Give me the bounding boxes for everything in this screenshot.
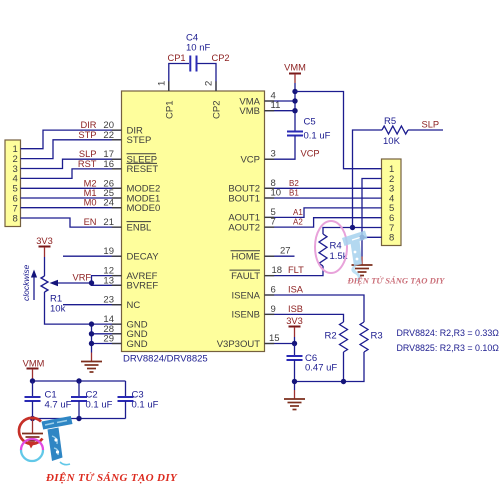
junction C6 bottom / sense gnd [292,379,297,384]
svg-text:19: 19 [103,246,114,257]
svg-text:STP: STP [78,130,96,140]
svg-text:18: 18 [272,265,283,276]
svg-text:DIR: DIR [80,120,96,130]
svg-text:3: 3 [271,149,276,160]
power 3V3 (at R1 top) [36,236,53,276]
svg-text:M0: M0 [84,198,97,208]
node CP1 label [168,53,186,63]
svg-text:VMM: VMM [284,63,306,73]
capacitor C4 10nF between CP1 and CP2 [169,33,216,92]
junction VMA [292,98,297,103]
resistor R5 10K (FLT to SLP) [353,116,444,228]
svg-text:10K: 10K [383,136,401,147]
svg-text:15: 15 [269,333,280,344]
wire J1 pin3 to SLEEP [21,159,122,168]
svg-text:RST: RST [78,159,97,169]
node B1 label [289,189,299,198]
svg-text:11: 11 [271,100,281,111]
svg-text:R3: R3 [371,331,383,342]
pin stubs (dark) over nets: IC left [112,130,122,343]
note DRV8824 sense value [397,328,500,338]
node VRF label [73,273,92,283]
node ISB label [288,304,303,314]
node A2 label [293,218,303,227]
wire J1 pin1 to DIR [21,130,122,149]
wire J2 pin8 to ground rail [362,236,382,238]
svg-text:MODE0: MODE0 [127,203,161,214]
svg-text:6: 6 [271,285,276,296]
wire J1 pin2 to STEP [21,140,122,159]
node A1 label [293,208,303,217]
ground (below C1) [22,419,43,445]
svg-text:CP1: CP1 [168,53,186,63]
svg-text:7: 7 [271,217,276,228]
wire AOUT2 (A2) to J2 pin6 [265,218,382,227]
junction GND pin14 [89,321,94,326]
svg-text:ENBL: ENBL [127,222,152,233]
node STP label [78,130,96,140]
node ISA label [288,285,304,295]
wire VMM rail to VMA/VMB and C5 [265,92,296,132]
svg-text:B1: B1 [289,189,299,198]
node B2 label [289,179,299,188]
wire VMM to J2 pin1 [295,92,382,169]
IC right pin number labels [269,91,291,345]
svg-text:DRV8825: R2,R3 = 0.10Ω: DRV8825: R2,R3 = 0.10Ω [397,343,500,353]
junction VMB [292,108,297,113]
power VMM (top) [284,63,306,92]
svg-text:0.1 uF: 0.1 uF [304,131,331,142]
svg-text:0.47 uF: 0.47 uF [305,363,337,374]
wire AOUT1 (A1) to J2 pin5 [265,208,382,218]
node M1 label [84,188,97,198]
junction GND pin28 [89,331,94,336]
svg-text:A2: A2 [293,218,303,227]
wire bulk cap rail (bottom) [33,418,126,420]
junction GND pin29 [89,341,94,346]
junction FLT/R4/R5/pin7 [350,225,355,230]
svg-text:R4: R4 [330,241,342,252]
svg-text:VMM: VMM [23,359,45,369]
svg-text:HOME: HOME [232,252,261,263]
resistor R2 (sense) [325,322,348,382]
wire VMM bulk cap rail (top) [33,380,126,382]
ground (below C6) [284,390,305,410]
pin 2 label (rotated) for CP2 [204,81,215,86]
svg-text:FLT: FLT [288,265,304,275]
svg-text:SLP: SLP [422,120,440,130]
right connector J2 (8-pin header) [382,159,402,246]
svg-text:ISENB: ISENB [231,310,260,321]
watermark ellipse around R4 [315,221,347,273]
capacitor C3 0.1uF [118,381,159,419]
svg-text:clockwise: clockwise [21,264,31,301]
IC left pin number labels [103,120,114,344]
svg-text:M1: M1 [84,188,97,198]
svg-text:VCP: VCP [301,149,320,159]
junction V3P3OUT [292,341,297,346]
svg-text:9: 9 [271,304,276,315]
svg-text:10k: 10k [50,304,66,315]
svg-text:4.7 uF: 4.7 uF [45,400,72,411]
wire J1 pin6 to MODE1 [21,197,122,199]
ground (IC GND pins) [81,353,102,373]
svg-text:B2: B2 [289,179,299,188]
ground (below J2) [352,257,373,276]
svg-text:V3P3OUT: V3P3OUT [217,339,260,350]
svg-text:FAULT: FAULT [231,271,260,282]
svg-text:C5: C5 [304,117,316,128]
wire J1 pin7 to MODE0 [21,207,122,209]
pin stub HOME (pin 27, n.c.) [265,255,295,257]
svg-text:R5: R5 [384,116,396,127]
svg-text:SLP: SLP [79,149,97,159]
watermark logo (bottom left): blue T [42,416,73,465]
node RST label [78,159,97,169]
svg-text:GND: GND [127,339,148,350]
wire J1 pin4 to RESET [21,169,122,179]
svg-text:3V3: 3V3 [286,316,303,326]
svg-text:M2: M2 [84,178,97,188]
node CP2 label [212,53,230,63]
wire J1 pin5 to MODE2 [21,187,122,189]
svg-text:0.1 uF: 0.1 uF [86,400,113,411]
svg-text:STEP: STEP [127,135,152,146]
watermark logo (bottom left): red ring [19,418,43,449]
svg-text:0.1 uF: 0.1 uF [132,400,159,411]
svg-text:10: 10 [271,188,282,199]
resistor R4 1.5k (FAULT protection) [265,228,353,276]
pin stub NC (pin 23) [63,304,122,306]
junction VMM/horizontal [292,89,297,94]
svg-text:27: 27 [280,246,291,257]
svg-text:10 nF: 10 nF [186,43,210,54]
node M0 label [84,198,97,208]
svg-text:CP2: CP2 [212,101,223,119]
svg-text:3V3: 3V3 [36,236,53,246]
pin stub DECAY (pin 19, n.c.) [63,255,122,257]
svg-text:EN: EN [84,217,97,227]
wire J2 pin7 / FLT junction to connector [353,227,382,229]
svg-text:R2: R2 [325,331,337,342]
svg-text:DECAY: DECAY [127,252,160,263]
IC right pin names [217,96,261,349]
node M2 label [84,178,97,188]
pin stubs (dark) IC top [169,81,216,91]
svg-text:VRF: VRF [73,273,92,283]
junction R2 bottom [341,379,346,384]
watermark text (bottom left) [45,471,178,484]
node DIR label [80,120,96,130]
wire J2 pin2 to ground rail [362,179,382,257]
clockwise annotation with arrow [21,264,37,301]
watermark logo (mid right, light blue T) [342,231,368,282]
svg-text:AOUT2: AOUT2 [228,222,260,233]
node SLP label [79,149,97,159]
capacitor C1 4.7uF [25,381,72,419]
junction C1 top [30,378,35,383]
junction C1 bottom [30,416,35,421]
note DRV8825 sense value [397,343,500,353]
wire V3P3OUT node [265,343,295,345]
wire J1 pin8 to ENBL [21,218,122,227]
resistor R3 (sense) [295,322,383,382]
wire VRF node (AVREF/BVREF tie) [92,276,122,286]
junction C2 bottom [76,416,81,421]
svg-text:1: 1 [157,81,168,86]
pin stubs (dark) IC right [265,101,275,344]
svg-text:A1: A1 [293,208,303,217]
svg-text:8: 8 [13,213,18,224]
watermark logo (bottom left): magenta/cyan ring [21,439,43,461]
watermark text (mid right) [347,276,446,286]
pin 1 label (rotated) for CP1 [157,81,168,86]
power 3V3 (at V3P3OUT) [286,316,303,344]
svg-text:ĐIỆN TỬ SÁNG TẠO DIY: ĐIỆN TỬ SÁNG TẠO DIY [347,276,446,286]
svg-text:BOUT1: BOUT1 [228,193,260,204]
svg-text:CP1: CP1 [164,101,175,119]
IC left pin names [127,125,161,349]
node VCP label [301,149,320,159]
svg-text:NC: NC [127,300,141,311]
node SLP label (right) [422,120,440,130]
svg-text:ISENA: ISENA [231,290,260,301]
svg-text:ĐIỆN TỬ SÁNG TẠO DIY: ĐIỆN TỬ SÁNG TẠO DIY [45,471,178,484]
power VMM (bottom left) [23,359,45,382]
wire BOUT2 (B2) to J2 pin3 [265,187,382,189]
capacitor C2 0.1uF [71,381,113,419]
svg-text:DRV8824/DRV8825: DRV8824/DRV8825 [123,354,208,365]
left connector J1 (8-pin header) [5,140,21,227]
junction C2 top [76,378,81,383]
svg-text:BVREF: BVREF [127,281,159,292]
node EN label [84,217,97,227]
capacitor C6 0.47uF [287,344,338,391]
junction pin8/gnd [359,235,364,240]
wire ISENB (ISB) to R2 [265,314,344,322]
capacitor C5 0.1uF (VMM to VCP) [265,117,331,160]
svg-text:VCP: VCP [240,155,260,166]
svg-text:CP2: CP2 [212,53,230,63]
junction VRF wiper [89,280,94,285]
wire GND pins rail [92,324,122,352]
wire BOUT1 (B1) to J2 pin4 [265,197,382,199]
potentiometer R1 10k [41,276,122,324]
node FLT label [288,265,304,275]
svg-text:ISA: ISA [288,285,304,295]
wire ISENA (ISA) to R3 [265,295,365,322]
svg-text:DRV8824: R2,R3 = 0.33Ω: DRV8824: R2,R3 = 0.33Ω [397,328,500,338]
svg-text:ISB: ISB [288,304,303,314]
svg-text:VMB: VMB [239,106,260,117]
svg-text:2: 2 [204,81,215,86]
op-amp U1 DRV8824/DRV8825 IC body [122,91,265,365]
svg-text:RESET: RESET [127,164,159,175]
IC top pin names CP1 CP2 rotated [164,101,222,119]
svg-text:8: 8 [389,233,394,244]
